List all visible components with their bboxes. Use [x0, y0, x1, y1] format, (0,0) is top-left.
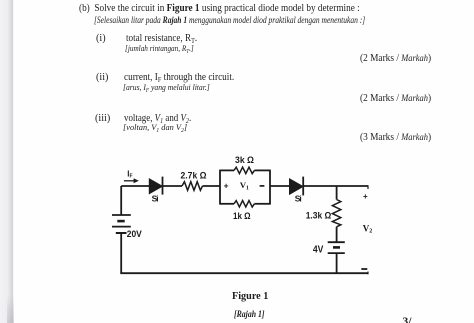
svg-text:V2: V2	[363, 223, 373, 234]
label V1	[240, 180, 249, 191]
label + (V1 polarity)	[224, 180, 229, 190]
wire top branch right	[254, 169, 270, 171]
output terminal tick (top right)	[367, 185, 369, 189]
left scan edge strip	[0, 0, 14, 323]
label minus (V2 polarity)	[361, 268, 367, 270]
label Si (D1)	[152, 193, 159, 203]
svg-text:+: +	[363, 192, 368, 201]
node: parallel network right bar	[269, 170, 271, 205]
label 1k ohm	[233, 211, 251, 221]
battery 20V	[112, 215, 131, 233]
node: parallel network left bar	[219, 170, 221, 205]
diode D2 Si	[290, 177, 304, 196]
svg-text:20V: 20V	[127, 229, 142, 239]
marks (ii)	[360, 93, 431, 104]
wire battery 20V to bottom rail	[120, 233, 122, 273]
wire bottom branch left	[220, 203, 234, 205]
battery 4V	[328, 242, 345, 253]
label 4V	[313, 245, 324, 256]
item (i)	[96, 33, 106, 44]
wire parallel network to diode D2	[270, 185, 290, 187]
output terminal tick (bottom right)	[367, 272, 369, 275]
wire top branch left	[220, 169, 234, 171]
diode D1 Si	[149, 177, 162, 195]
wire battery 4V to bottom rail	[336, 253, 338, 273]
bottom wire rail	[120, 272, 368, 274]
wire node A to diode D1 anode (top-left horizontal)	[121, 185, 149, 187]
item (ii)	[96, 72, 108, 83]
wire bottom branch right	[254, 203, 270, 205]
wire resistor 1.3k to battery 4V	[336, 227, 338, 242]
svg-text:Si: Si	[295, 193, 302, 203]
marks (i)	[360, 53, 431, 64]
resistor 1k	[234, 201, 254, 207]
wire resistor 2.7k to parallel network	[203, 185, 221, 187]
current arrow IF	[124, 178, 139, 183]
label minus (V1 polarity)	[260, 185, 265, 187]
wire battery 20V top lead (node A vertical)	[120, 186, 122, 215]
label Rajah 1	[234, 309, 264, 320]
label V2	[363, 223, 373, 234]
svg-text:4V: 4V	[313, 245, 324, 256]
label 3k ohm	[235, 155, 254, 165]
page number fragment (cut off)	[403, 316, 412, 323]
question line 2 (malay italic)	[94, 15, 365, 25]
item (iii)	[95, 113, 110, 124]
wire junction to resistor 1.3k (vertical)	[336, 186, 338, 200]
resistor 1.3k	[332, 200, 340, 227]
resistor 3k	[234, 167, 254, 173]
label + (V2 polarity)	[363, 192, 368, 201]
label 20V	[127, 229, 142, 239]
marks (iii)	[360, 132, 431, 143]
svg-text:+: +	[224, 180, 229, 190]
label Si (D2)	[295, 193, 302, 203]
svg-text:3k Ω: 3k Ω	[235, 155, 254, 165]
label 2.7k ohm	[181, 170, 207, 181]
label IF	[127, 169, 132, 179]
wire D1 cathode to resistor 2.7k	[163, 185, 183, 187]
resistor 2.7k	[182, 182, 203, 191]
svg-text:1k Ω: 1k Ω	[233, 211, 251, 221]
svg-text:IF: IF	[127, 169, 132, 179]
question line 1	[79, 3, 360, 14]
label Figure 1	[232, 291, 268, 302]
svg-text:1.3k Ω: 1.3k Ω	[306, 211, 332, 221]
wire D2 cathode to output terminal	[303, 185, 368, 187]
svg-text:Si: Si	[152, 193, 159, 203]
svg-text:V1: V1	[240, 180, 249, 191]
svg-text:2.7k Ω: 2.7k Ω	[181, 170, 207, 181]
label 1.3k ohm	[306, 211, 332, 221]
